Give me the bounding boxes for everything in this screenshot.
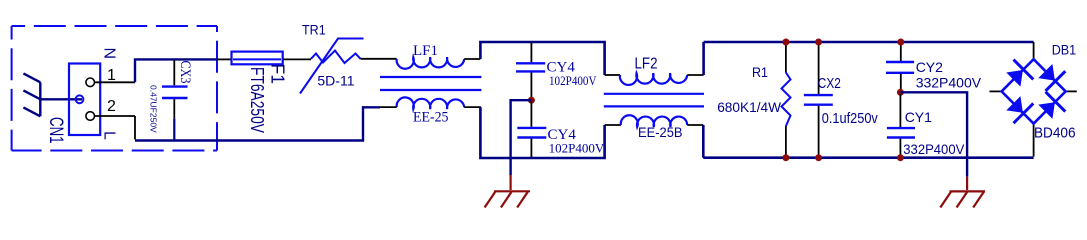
svg-text:EE-25: EE-25 (413, 110, 449, 126)
junction node CY4 midpoint (528, 97, 535, 104)
wire pin1 to riser (95, 81, 135, 83)
inductor EE-25 bottom winding (397, 97, 465, 109)
fuse F1 (232, 52, 283, 65)
junction CY2/CY1 mid (897, 89, 904, 96)
svg-text:L: L (101, 131, 118, 140)
LF2 core lines (604, 93, 704, 95)
inductor LF2 top winding (620, 73, 687, 85)
svg-text:5D-11: 5D-11 (317, 73, 354, 89)
svg-text:332P400V: 332P400V (903, 141, 965, 157)
svg-text:EE-25B: EE-25B (638, 124, 683, 140)
earth pin circle (76, 95, 84, 103)
junction R1 top (782, 39, 789, 46)
junction R1 bottom (782, 154, 789, 161)
svg-text:N: N (101, 48, 118, 60)
capacitor CY2 (886, 42, 914, 90)
junction CX2 top (815, 39, 822, 46)
diode D4 bottom-right (1035, 92, 1065, 122)
resistor R1 (782, 42, 791, 158)
svg-text:LF1: LF1 (413, 43, 438, 59)
pin 1 circle (86, 78, 95, 87)
capacitor CX3 (162, 60, 188, 139)
wire riser down (134, 116, 136, 139)
CY4 section loop bottom (480, 107, 604, 158)
LF1 core lines (380, 76, 481, 78)
top rail right section (704, 41, 1034, 44)
wire L bottom run (135, 107, 380, 140)
svg-text:102P400V: 102P400V (549, 141, 605, 156)
capacitor CY4 upper (516, 42, 545, 99)
pin 2 circle (86, 112, 95, 121)
wire fuse to TR1 (283, 58, 311, 60)
capacitor CX2 (804, 42, 833, 158)
svg-text:CN1: CN1 (45, 117, 66, 144)
diode D2 top-right (1035, 61, 1065, 91)
ground symbol left (485, 191, 530, 207)
wire plug to earth pin (40, 98, 82, 100)
svg-text:0.1uf250v: 0.1uf250v (822, 110, 878, 127)
diode D3 bottom-left (1003, 93, 1033, 123)
capacitor CY1 (887, 94, 915, 158)
wire LF1 right (464, 58, 480, 60)
capacitor CY4 lower (517, 101, 546, 157)
thermistor TR1 (300, 39, 364, 94)
svg-text:CX3: CX3 (177, 61, 193, 84)
wire pin2 to riser (95, 115, 135, 117)
svg-text:R1: R1 (752, 64, 768, 80)
svg-text:LF2: LF2 (635, 56, 658, 73)
wire EE-25B left (605, 124, 621, 126)
svg-text:2: 2 (107, 98, 116, 115)
svg-text:680K1/4W: 680K1/4W (717, 99, 782, 115)
wire LF2 top right (687, 74, 703, 76)
svg-text:102P400V: 102P400V (549, 73, 597, 88)
riser EE-25B to bottom rail (702, 125, 705, 158)
inductor EE-25B bottom winding (621, 115, 687, 127)
svg-text:TR1: TR1 (302, 22, 326, 38)
svg-text:CY2: CY2 (916, 59, 943, 75)
ground symbol right (940, 191, 985, 207)
svg-text:F1: F1 (268, 64, 288, 85)
connector CN1 body (69, 64, 100, 136)
wire EE-25 right (464, 106, 481, 108)
riser LF2 to top rail (702, 42, 705, 75)
svg-text:BD406: BD406 (1034, 125, 1076, 142)
wire EE-25B right (687, 124, 703, 126)
riser bridge to bottom rail (1033, 124, 1035, 157)
svg-text:CY1: CY1 (905, 109, 932, 125)
junction CY2 top (897, 39, 904, 46)
wire CY4 junction to ground (511, 100, 532, 175)
svg-text:0.47UF250V: 0.47UF250V (149, 85, 159, 133)
junction CY1 bottom (897, 154, 904, 161)
wire to fuse (217, 58, 232, 60)
diode D1 top-left (1003, 60, 1033, 90)
dashed enclosure box (12, 26, 217, 151)
riser top rail to bridge (1033, 42, 1035, 59)
bridge left stub (990, 90, 1002, 92)
inductor LF1 top winding (397, 57, 465, 69)
bottom rail right section (703, 156, 1033, 159)
svg-text:FT6A250V: FT6A250V (247, 67, 267, 133)
bridge rectifier DB1 diamond (1002, 59, 1066, 123)
AC plug symbol (23, 73, 40, 116)
junction CX2 bottom (815, 154, 822, 161)
svg-text:332P400V: 332P400V (916, 75, 982, 91)
bridge right stub (1066, 90, 1077, 92)
svg-text:DB1: DB1 (1052, 42, 1077, 58)
wire CY junction to right ground (900, 92, 967, 177)
wire LF2 top left (605, 74, 620, 76)
CY4 section loop left (480, 42, 604, 75)
wire riser up and N top run (135, 59, 217, 82)
svg-text:CX2: CX2 (818, 75, 841, 92)
wire TR1 to LF1 (361, 58, 397, 60)
wire EE-25 left (380, 106, 397, 108)
